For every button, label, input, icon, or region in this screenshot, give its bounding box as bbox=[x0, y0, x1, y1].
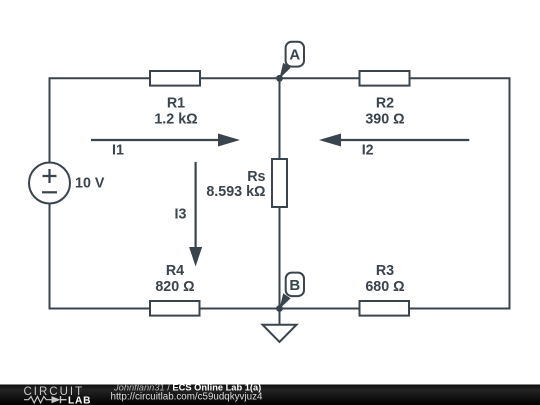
svg-text:10 V: 10 V bbox=[75, 176, 105, 192]
svg-text:R1: R1 bbox=[167, 95, 185, 111]
svg-text:B: B bbox=[289, 277, 300, 294]
svg-text:8.593 kΩ: 8.593 kΩ bbox=[206, 184, 265, 200]
svg-text:I1: I1 bbox=[112, 142, 124, 158]
svg-text:http://circuitlab.com/c59udqky: http://circuitlab.com/c59udqkyvjuz4 bbox=[111, 392, 263, 403]
svg-text:A: A bbox=[289, 47, 300, 64]
svg-text:820 Ω: 820 Ω bbox=[155, 279, 194, 295]
svg-text:LAB: LAB bbox=[68, 395, 91, 405]
svg-text:1.2 kΩ: 1.2 kΩ bbox=[154, 111, 197, 127]
svg-text:390 Ω: 390 Ω bbox=[365, 111, 404, 127]
svg-text:680 Ω: 680 Ω bbox=[365, 279, 404, 295]
svg-text:R2: R2 bbox=[376, 95, 394, 111]
svg-text:Rs: Rs bbox=[247, 169, 265, 185]
svg-text:R4: R4 bbox=[166, 263, 184, 279]
svg-text:R3: R3 bbox=[376, 263, 394, 279]
svg-text:I3: I3 bbox=[175, 207, 187, 223]
svg-text:I2: I2 bbox=[362, 143, 374, 159]
